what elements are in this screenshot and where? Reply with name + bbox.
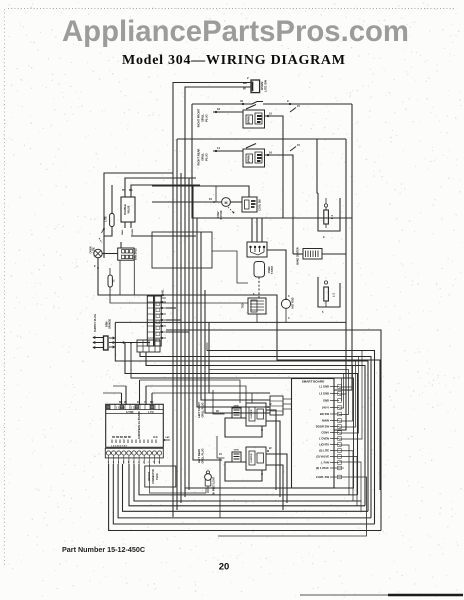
wire pin5 <box>209 370 349 415</box>
svg-text:CONV: CONV <box>321 431 329 435</box>
svg-text:GRILL PLUG: GRILL PLUG <box>202 448 205 463</box>
svg-text:1 15 0B: 1 15 0B <box>116 407 125 410</box>
wire <box>266 421 280 497</box>
wire <box>325 301 327 307</box>
svg-text:OVEN: OVEN <box>132 228 134 235</box>
wire <box>131 185 200 197</box>
wire <box>206 343 208 352</box>
wire <box>251 218 253 242</box>
svg-text:W: W <box>243 87 246 91</box>
spark module box A1 <box>243 110 265 128</box>
wire <box>213 150 243 152</box>
wire <box>118 464 371 518</box>
svg-text:GRN: GRN <box>234 450 239 452</box>
wire <box>293 253 303 255</box>
wire <box>111 185 113 214</box>
wire pin11 <box>339 451 353 501</box>
wire <box>256 218 258 242</box>
wire <box>231 201 243 203</box>
wire <box>207 351 375 525</box>
wire <box>140 380 241 403</box>
circuit connector plug label box <box>145 466 176 487</box>
wire <box>123 464 369 511</box>
wire pin13 <box>339 462 361 511</box>
L-2 bracket <box>318 277 340 307</box>
strip pins <box>161 301 163 303</box>
wire <box>152 201 222 203</box>
svg-text:EUROPEAN 4 H BOARD: EUROPEAN 4 H BOARD <box>138 411 141 439</box>
svg-text:2 GRL SW: 2 GRL SW <box>316 475 329 479</box>
page left dotted border <box>4 9 6 565</box>
igniter connector C2 <box>232 452 241 462</box>
svg-text:BK: BK <box>119 402 123 404</box>
wire <box>261 218 263 242</box>
svg-text:L-2: L-2 <box>332 292 336 296</box>
plug body <box>104 336 109 350</box>
wire <box>290 108 296 113</box>
wire pin7 <box>339 361 356 427</box>
wire <box>180 173 182 503</box>
wire <box>209 322 270 393</box>
wire <box>134 464 362 501</box>
wire <box>205 290 270 413</box>
wire <box>266 410 276 490</box>
spark switch contact <box>246 144 256 149</box>
svg-text:PLUG: PLUG <box>205 114 209 121</box>
wire <box>193 185 222 460</box>
svg-text:Model 304—WIRING DIAGRAM: Model 304—WIRING DIAGRAM <box>122 53 345 68</box>
svg-text:1 2 3 4 5 6 7 8 9: 1 2 3 4 5 6 7 8 9 <box>111 444 128 447</box>
svg-text:MOTOR: MOTOR <box>220 210 223 219</box>
smart board outline U3 <box>292 379 335 489</box>
wire <box>131 235 196 237</box>
wire <box>322 253 346 255</box>
svg-text:COOL SW: COOL SW <box>259 199 262 211</box>
svg-text:GRILL: GRILL <box>201 114 205 122</box>
svg-text:(2) LITE: (2) LITE <box>319 449 329 453</box>
wire <box>113 464 374 524</box>
svg-text:PLUG: PLUG <box>205 153 209 160</box>
wire <box>152 393 252 403</box>
wire <box>265 155 294 254</box>
svg-text:CLK: CLK <box>153 437 158 439</box>
spark switch contact <box>246 105 256 110</box>
contact <box>325 224 327 228</box>
L-1 solenoid <box>324 210 329 224</box>
wire <box>139 464 358 495</box>
thermocouple TC <box>108 275 112 287</box>
svg-text:GRILL PLUG: GRILL PLUG <box>202 402 205 417</box>
wire pin4 <box>339 374 344 409</box>
L-box terminal strip T1 <box>147 296 153 346</box>
igniter connector C1 <box>232 408 241 418</box>
oven thermostat TH1 <box>254 262 265 278</box>
svg-text:M: M <box>225 201 228 205</box>
wire <box>213 390 225 414</box>
wire <box>125 178 196 197</box>
wire <box>188 178 190 490</box>
wire <box>102 253 117 255</box>
wire pin14 <box>218 477 367 536</box>
svg-text:LIGHTS: LIGHTS <box>319 443 329 447</box>
svg-text:BK: BK <box>129 189 133 192</box>
wire <box>317 139 318 193</box>
wire <box>146 352 365 506</box>
wire <box>146 386 246 403</box>
wire <box>283 398 292 400</box>
wire pin2 <box>339 394 346 430</box>
wire <box>109 464 381 531</box>
svg-text:GND: GND <box>323 399 329 403</box>
motor contact <box>228 207 233 212</box>
double gauge valve V1 <box>121 197 135 222</box>
wire <box>110 287 248 303</box>
cool switch box S2 <box>242 197 257 212</box>
connector pin circles <box>106 451 110 455</box>
svg-text:MAIN: MAIN <box>322 419 329 423</box>
wire pin9 <box>339 351 362 440</box>
wire bus top <box>177 138 346 140</box>
svg-text:BAKE CENTER: BAKE CENTER <box>297 247 300 265</box>
wire drops to clock board <box>121 393 123 405</box>
wire pin1 <box>339 386 352 388</box>
svg-text:(2) 1 25AC: (2) 1 25AC <box>316 466 329 470</box>
wire <box>290 147 296 152</box>
svg-text:L FAN: L FAN <box>321 461 329 465</box>
bk pilot light L2 <box>205 474 212 481</box>
oven light switch S1 <box>251 80 260 93</box>
wire pin3 <box>341 378 343 401</box>
wire <box>185 87 251 497</box>
receptacle prongs <box>109 337 115 339</box>
svg-text:L1 GND: L1 GND <box>319 385 329 389</box>
igniter module box M2 <box>246 403 266 426</box>
conv motor M1 <box>222 198 231 207</box>
wire <box>152 186 249 197</box>
wire <box>215 186 217 202</box>
svg-text:SPARK: SPARK <box>248 155 251 163</box>
wire <box>213 111 243 113</box>
wire <box>212 251 248 283</box>
wire <box>125 343 358 495</box>
receptacle plug P1 <box>247 242 267 257</box>
svg-text:SUPPLY PLUG: SUPPLY PLUG <box>93 314 97 332</box>
wire long bus <box>115 321 346 323</box>
wire <box>201 232 270 400</box>
svg-text:AppliancePartsPros.com: AppliancePartsPros.com <box>62 15 409 48</box>
wire <box>104 173 173 258</box>
svg-text:TR: TR <box>122 189 126 192</box>
svg-text:SMART BOARD: SMART BOARD <box>302 380 325 384</box>
wire pin6 <box>339 366 353 422</box>
svg-text:BRN/: BRN/ <box>107 321 109 327</box>
wire <box>120 242 122 248</box>
wire <box>163 439 170 441</box>
wire loop <box>225 418 262 437</box>
valve bottom pins <box>124 222 126 228</box>
svg-text:T-STAT: T-STAT <box>271 265 274 274</box>
wire <box>217 436 225 458</box>
wire <box>140 352 371 518</box>
svg-text:TOD: TOD <box>242 303 245 308</box>
wire <box>115 322 368 511</box>
wire <box>266 454 287 503</box>
wire pin8 <box>339 357 359 434</box>
hot rod igniter E1 <box>281 299 290 308</box>
svg-text:L2 GND: L2 GND <box>319 392 329 396</box>
igniter module box M3 <box>246 447 266 470</box>
wire <box>205 488 207 493</box>
svg-text:GRILL: GRILL <box>201 153 205 161</box>
svg-text:BK SW: BK SW <box>320 412 329 416</box>
svg-text:TD-BL: TD-BL <box>162 289 165 297</box>
svg-text:LITE: LITE <box>105 216 108 222</box>
svg-text:3-TOD: 3-TOD <box>126 411 134 414</box>
svg-text:BU: BU <box>150 402 154 404</box>
burner box outline <box>152 232 212 268</box>
svg-text:20: 20 <box>219 562 230 573</box>
svg-text:IGNITER: IGNITER <box>251 453 253 462</box>
svg-text:ORANGE: ORANGE <box>109 318 112 329</box>
L-2 solenoid <box>324 287 329 301</box>
supply plug prongs <box>93 337 103 339</box>
svg-text:Part Number 15-12-450C: Part Number 15-12-450C <box>62 545 145 554</box>
wire pin12 <box>339 456 357 505</box>
wire <box>129 464 365 506</box>
svg-text:1 115 0: 1 115 0 <box>131 407 140 410</box>
wire pin10 <box>339 445 349 495</box>
wire <box>285 308 287 322</box>
bake center box U2 <box>303 249 322 260</box>
wire <box>267 250 286 299</box>
svg-text:VALVE: VALVE <box>128 205 131 213</box>
svg-text:SPARK: SPARK <box>248 116 251 124</box>
wire <box>207 486 209 493</box>
svg-text:L-1: L-1 <box>330 214 334 218</box>
svg-text:BK: BK <box>243 81 247 85</box>
oven lite resistor <box>110 214 115 227</box>
svg-text:CAP: CAP <box>165 436 170 439</box>
wire <box>265 116 284 218</box>
svg-text:HOT ROD: HOT ROD <box>292 297 295 308</box>
wire <box>197 218 270 407</box>
smart board input connector C3 <box>270 396 283 415</box>
electric gauge module G1 <box>118 248 134 260</box>
wire <box>131 343 354 488</box>
wire <box>266 465 283 510</box>
wire <box>166 331 189 333</box>
svg-text:L OVEN: L OVEN <box>319 437 329 441</box>
svg-text:LITE SW: LITE SW <box>264 80 268 92</box>
svg-text:L TO: L TO <box>148 411 154 414</box>
wire bottom bus <box>219 458 221 518</box>
wire loop <box>225 462 262 481</box>
svg-text:CONNECTOR: CONNECTOR <box>153 469 155 484</box>
svg-text:BK PILOT LIGHT: BK PILOT LIGHT <box>214 476 216 495</box>
tod relay K1 <box>248 298 266 314</box>
wire pin14b <box>339 467 344 469</box>
svg-text:PLUG: PLUG <box>157 473 159 480</box>
bottom scan edge line <box>300 594 463 596</box>
wire right main L1 drop <box>334 104 352 390</box>
svg-text:31: 31 <box>240 99 244 103</box>
svg-text:TC: TC <box>114 279 116 282</box>
svg-text:(2) VALVE: (2) VALVE <box>316 455 329 459</box>
board header cells <box>106 409 164 411</box>
svg-text:BK BR BK BR BK: BK BR BK BR BK <box>112 437 131 439</box>
svg-text:DOOR SW: DOOR SW <box>316 425 330 429</box>
assembly outline box <box>192 104 352 218</box>
svg-text:RIGHT FRONT: RIGHT FRONT <box>197 108 201 127</box>
svg-text:MAN.: MAN. <box>121 229 124 235</box>
strip lower cells <box>137 340 160 352</box>
wire <box>161 297 166 299</box>
spark module box A2 <box>243 149 265 167</box>
svg-text:RIGHT REAR: RIGHT REAR <box>197 149 201 166</box>
svg-text:GRN: GRN <box>234 406 239 408</box>
svg-text:IGNITER: IGNITER <box>251 409 253 418</box>
wire <box>166 330 381 531</box>
oven lamp L1 <box>94 249 102 257</box>
wire <box>166 319 181 321</box>
wire <box>150 464 207 493</box>
wire <box>166 307 176 309</box>
wire <box>98 258 380 490</box>
wire <box>104 227 112 237</box>
wire right L2 drop <box>334 139 346 430</box>
wire with door switch contact <box>192 103 252 105</box>
wire <box>256 314 258 322</box>
page top dotted border <box>8 8 455 10</box>
wire <box>176 139 178 510</box>
wire <box>173 83 251 518</box>
svg-text:BRN SHLD: BRN SHLD <box>136 248 138 260</box>
board connector shell <box>105 448 163 458</box>
lamp switch contact <box>102 228 105 233</box>
svg-text:240 V: 240 V <box>322 406 329 410</box>
L-1 bracket <box>318 193 340 231</box>
wire supply feed <box>113 342 150 344</box>
clock ERC board U1 <box>106 404 164 447</box>
wire <box>258 277 260 298</box>
